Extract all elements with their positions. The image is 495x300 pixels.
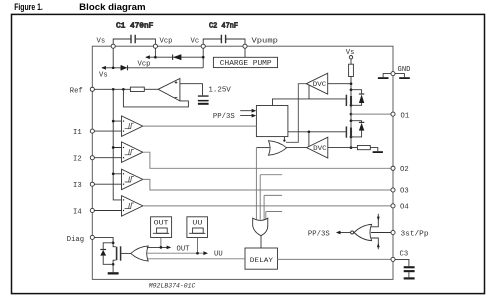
diode D5 (diag clamp) [100, 243, 113, 264]
resistor R2 (source sense) [328, 146, 378, 152]
svg-text:Vpump: Vpump [252, 38, 278, 46]
ground (GND pin) [378, 74, 410, 79]
wire Vs rail with arrow [99, 66, 203, 80]
svg-text:C2 47nF: C2 47nF [209, 23, 238, 31]
node Vpump circle [243, 44, 247, 48]
port O1 [391, 112, 409, 121]
figure title [14, 2, 145, 13]
PP/3S inputs [213, 109, 256, 121]
wire I2 to O2 [143, 152, 391, 168]
port O2 [391, 166, 409, 174]
port Ref [70, 87, 95, 95]
wire I1 to logic [143, 125, 257, 127]
wire I3 to O3 [143, 179, 391, 190]
svg-text:1.25V: 1.25V [208, 86, 231, 94]
capacitor C1 [113, 23, 155, 45]
svg-text:PP/3S: PP/3S [308, 230, 330, 238]
comparator A4 [94, 196, 143, 217]
driver DVC2 [286, 137, 328, 158]
wire DELAY to C3 [278, 258, 392, 260]
node Vpump (top) [245, 38, 278, 58]
op-amp U3 (bandgap) [158, 79, 180, 101]
logic block U2 [256, 106, 288, 137]
svg-text:I3: I3 [73, 182, 82, 190]
svg-text:I4: I4 [73, 209, 82, 217]
svg-text:Block diagram: Block diagram [79, 2, 145, 13]
diode D4 (body diode M2) [351, 121, 364, 137]
or-gate G3 (diag, pointing left) [121, 246, 148, 261]
svg-text:3st/Pp: 3st/Pp [401, 231, 429, 239]
wire reference distribution [112, 89, 122, 200]
wire O1 [351, 113, 391, 115]
svg-text:O4: O4 [400, 204, 409, 212]
svg-text:GND: GND [398, 66, 411, 74]
node Vs (internal supply) [346, 49, 355, 64]
delay block U4 [245, 248, 278, 269]
svg-text:DVC: DVC [313, 145, 327, 152]
svg-text:UU: UU [214, 251, 223, 259]
chip boundary box [92, 46, 393, 279]
svg-text:O3: O3 [400, 187, 409, 195]
port I2 [73, 156, 94, 164]
svg-text:Diag: Diag [67, 236, 84, 244]
svg-text:Vs: Vs [97, 38, 106, 46]
svg-text:I1: I1 [73, 129, 82, 137]
or-gate G2 (fault, pointing down) [253, 218, 268, 248]
port I3 [73, 182, 94, 190]
svg-text:Figure 1.: Figure 1. [14, 2, 43, 13]
svg-text:C1 470nF: C1 470nF [116, 23, 153, 31]
wire 1.25V output [180, 84, 232, 96]
svg-text:DVC: DVC [313, 81, 327, 88]
svg-text:OUT: OUT [177, 245, 191, 253]
wire supply vertical [350, 77, 353, 149]
mosfet M2 (low side) [288, 126, 351, 146]
ground (sense resistor) [373, 151, 383, 153]
capacitor C3 (external) [395, 259, 415, 277]
node Vs (top) [97, 38, 114, 68]
ground (diag mosfet) [108, 272, 119, 274]
wire I4 to O4 [143, 205, 391, 207]
node Vs circle [111, 44, 115, 48]
capacitor C2 [203, 23, 245, 45]
svg-text:CHARGE PUMP: CHARGE PUMP [220, 60, 272, 68]
wire Vcp rail with arrow [138, 55, 205, 68]
driver DVC1 [286, 73, 351, 142]
node Vc circle [201, 44, 205, 48]
comparator A1 [94, 116, 143, 136]
node Vcp circle [153, 44, 157, 48]
wire OUT signal [147, 238, 190, 254]
capacitor C4 (1.25V) [198, 95, 209, 104]
svg-text:M92LB374-01C: M92LB374-01C [149, 283, 196, 290]
svg-text:Vs: Vs [99, 72, 108, 80]
svg-text:Vs: Vs [346, 49, 355, 57]
resistor R3 (ref) [94, 87, 158, 91]
port 3st/Pp [391, 230, 429, 238]
block OUT monitor [151, 217, 172, 238]
diode D3 (body diode M1) [351, 90, 364, 106]
svg-text:O1: O1 [401, 113, 410, 121]
mosfet M3 (diag open drain) [94, 237, 120, 272]
wire feedback [123, 89, 188, 107]
port O3 [391, 187, 409, 195]
port GND [391, 66, 411, 76]
svg-text:C3: C3 [400, 251, 409, 259]
resistor R1 (Vs) [349, 64, 354, 76]
svg-text:Ref: Ref [70, 87, 83, 95]
port O4 [391, 204, 409, 212]
mosfet M1 (high side) [273, 95, 352, 106]
wire UU signal [147, 238, 223, 259]
port Diag [67, 235, 95, 244]
comparator A3 [94, 169, 143, 190]
ground (C3) [404, 277, 415, 279]
svg-text:UU: UU [192, 219, 202, 226]
svg-text:Vcp: Vcp [160, 38, 173, 46]
nor-gate G4 (3st/Pp) [308, 214, 391, 250]
port C3 [391, 251, 408, 262]
svg-text:O2: O2 [400, 166, 409, 174]
block UU monitor [187, 217, 208, 238]
node Vc (top) [191, 38, 204, 68]
port I4 [73, 208, 94, 216]
charge pump U1 [213, 57, 277, 68]
diode D1 (Vcp rail, pointing left) [173, 54, 181, 60]
svg-text:PP/3S: PP/3S [213, 113, 235, 121]
diode D2 (Vs rail, pointing right) [121, 65, 128, 70]
svg-text:DELAY: DELAY [250, 257, 273, 265]
node Vcp (top) [155, 38, 172, 58]
svg-text:I2: I2 [73, 156, 82, 164]
svg-text:OUT: OUT [154, 219, 169, 226]
comparator A2 [94, 142, 143, 163]
svg-text:Vc: Vc [191, 38, 200, 46]
wire to fault gate [256, 148, 282, 220]
or-gate G1 (to DVC2) [256, 137, 286, 156]
wire delay feedback [147, 258, 245, 260]
svg-text:Vcp: Vcp [138, 60, 151, 68]
port I1 [73, 129, 94, 137]
